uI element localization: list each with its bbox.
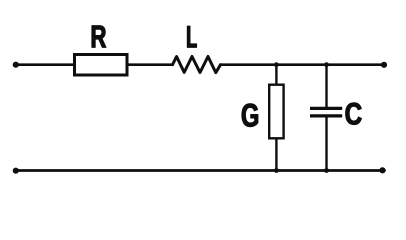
capacitor C bottom plate	[310, 114, 342, 117]
node output terminal top-right	[381, 62, 387, 68]
wire between R and L	[127, 63, 173, 66]
label L value	[187, 26, 196, 47]
wire stub bottom of C	[325, 118, 327, 171]
node input terminal top-left	[13, 62, 19, 68]
wire bottom rail	[16, 169, 385, 172]
node input terminal bottom-left	[13, 168, 19, 174]
label R value	[92, 26, 106, 48]
node junction bottom of G branch	[274, 168, 279, 173]
wire stub bottom of G	[275, 139, 277, 171]
node junction top of G branch	[274, 62, 279, 67]
node output terminal bottom-right	[379, 167, 385, 173]
wire top rail right segment (L to output)	[221, 63, 385, 66]
node junction bottom of C branch	[324, 168, 329, 173]
resistor R	[75, 55, 128, 76]
label G value	[242, 104, 258, 127]
node junction top of C branch	[324, 62, 329, 67]
wire top rail left segment (input to R)	[16, 63, 75, 66]
label C value	[346, 103, 362, 125]
capacitor C top plate	[310, 107, 342, 110]
wire stub top of C	[325, 65, 327, 107]
conductance G (box)	[269, 85, 283, 139]
inductor L (zigzag)	[173, 57, 221, 73]
wire stub top of G	[275, 65, 277, 84]
